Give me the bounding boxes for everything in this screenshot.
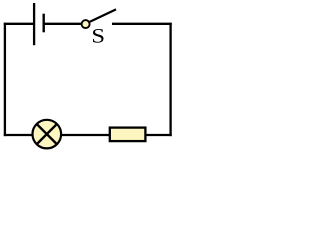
wire: lamp to resistor [62, 134, 110, 136]
wire: resistor to bottom-right corner [147, 134, 172, 136]
wire: battery short plate to switch contact [44, 23, 82, 25]
switch S: pivot contact circle [82, 20, 90, 28]
wire: switch right contact to top-right corner [112, 23, 172, 25]
wire: right vertical rail [169, 23, 171, 136]
lamp: X stroke 1 [36, 124, 57, 145]
battery cell: short plate (negative) [43, 14, 45, 33]
wire: left vertical rail [4, 23, 6, 136]
label S [93, 29, 104, 43]
lamp: bulb circle [33, 120, 62, 149]
lamp: X stroke 2 [36, 124, 57, 145]
switch S: open blade arm [90, 9, 116, 22]
battery cell: long plate (positive) [33, 3, 35, 45]
wire: bottom-left segment (left rail to lamp) [4, 134, 32, 136]
resistor R: body [110, 128, 146, 142]
wire: top-left horizontal (left rail to battery long plate) [4, 23, 34, 25]
